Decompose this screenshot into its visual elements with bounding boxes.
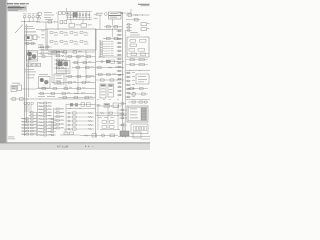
ladder marks right-top [126,24,132,26]
center row 4 [72,67,96,69]
relays inside K5 [130,40,136,43]
ladder stub above ECU [119,103,126,105]
center row 7 [36,88,96,90]
relay box K5 outline [127,37,149,57]
ladder stub below ECU [119,124,127,126]
vertical bus B [26,24,28,122]
fuse column group F1-F8 [67,12,69,20]
diode pair D3 D4 [60,21,63,24]
top right note text [138,4,150,5]
K5 lower contacts [126,59,148,61]
battery row comps [24,43,36,45]
ladder L2 [38,102,53,104]
fuse rail top wire [66,11,92,13]
gauge G1 [104,13,107,16]
bottom tick marks [85,146,86,147]
module box M1 [136,74,149,84]
label text rows [44,11,52,14]
lamp E3 [36,13,40,16]
bottom margin strip [0,143,150,150]
label rows [96,12,103,15]
relay K2 cluster [57,61,71,74]
lead x112 lower [112,28,114,37]
battery B1 [25,35,32,40]
connector strip pins [134,127,136,131]
ECU top comps row [128,101,148,103]
center row 5 [66,76,96,78]
note rows above K5 [130,31,138,34]
relay K3 with coils [39,77,51,89]
ladder right-mid-2 [117,74,123,76]
connector CN2 round cluster [27,51,38,62]
relay RT4 [141,28,147,31]
upper comp rows [38,46,52,48]
right bottom wire [126,99,150,101]
diode pair D1 D2 [59,12,62,15]
center row 1 wire [50,51,96,53]
starter wire stub [37,36,40,38]
CN1 bottom rail [98,56,122,58]
right rows [128,88,148,90]
resistor module RM1 [100,84,106,98]
row y99 comps [12,98,16,100]
relay RT3 [141,23,147,26]
bottom cluster A [64,132,68,135]
ladder L3 [54,108,65,110]
note text block [8,136,14,139]
center row 6 [52,82,96,84]
center row 9 wire [58,97,96,99]
fuse rail feed stub [66,8,68,12]
center row 3 [72,62,96,64]
bottom right wire [118,136,150,138]
row R30 [96,74,124,76]
component U2 [81,24,87,28]
wire right second [126,19,140,21]
contact block cluster [54,74,64,84]
ladder L1 [29,112,37,114]
fuse F0 on wire [36,21,58,23]
revision table [7,6,27,12]
unit box UB [109,16,122,19]
starter label rows [24,25,33,28]
fuse holder cluster left [11,86,17,92]
lead x112 [112,19,114,26]
vertical trunk x122 [122,12,124,137]
ladder L4 [66,112,94,114]
wire right exit [126,70,150,72]
center row 1 comps [53,51,57,53]
horn H1 [32,13,35,16]
wire harness diagonal [15,25,23,34]
ladder of connectors right-mid [117,30,123,32]
connector CN1 pin column [99,40,101,57]
ECU box outline [127,106,148,122]
marks right of fuse row [94,14,98,15]
page bottom edge shadow line [0,142,150,143]
K5 internal wire [127,53,149,55]
fuse rail bottom wire [66,19,92,21]
left margin strip [0,0,6,144]
cluster boxes [97,104,101,105]
drop lines [24,105,26,113]
center vertical links [51,50,53,83]
top-left wire bus [21,21,40,23]
verticals lower right [97,104,99,130]
connector strip box [131,124,148,134]
lamp E2 [28,13,31,16]
resistor module RM2 [108,84,114,97]
row across y104 [66,104,96,106]
center row 9 text [38,95,45,98]
text under fuse box [48,51,57,54]
vertical bus C [28,50,30,97]
lead x100 [99,15,101,30]
row with resistor R21 [96,67,124,69]
horizontal ground run y99 [10,98,94,100]
row with resistor R20 [96,61,124,63]
vertical link x58 [57,14,59,30]
switch boxes row [27,63,31,67]
vertical link x46 [45,22,47,30]
relay block K1 [73,12,78,17]
ECU lead wires [119,109,127,111]
wires from connector [38,53,52,55]
row across y108 [66,108,96,110]
FB1 left stub marks [41,30,45,33]
vertical bus A [24,22,26,137]
title text ELECTRICAL CIRCUIT DIAGRAM [7,3,13,4]
pin label rows [25,68,34,71]
bottom wire row [80,135,118,137]
vertical trunk x95 [95,29,97,137]
junction dots top-left [23,20,26,23]
resistor RT2 [134,14,138,15]
vertical trunk x125 [124,30,126,138]
dots row [97,98,100,101]
wire right top [126,14,150,16]
ECU hatched column [141,108,146,120]
junction marks [24,103,26,105]
wire fusebox to trunk [96,29,122,31]
lamp E1 [23,13,27,16]
wire row y38.5 [104,38,123,40]
wire row y26.8 [104,26,122,28]
comp box RT1 [128,13,131,16]
ladder far right [125,72,131,74]
svg-text:4-7 1 L04: 4-7 1 L04 [57,145,69,149]
row y113 [96,112,124,114]
feed wire top right [118,12,131,14]
component U1 [69,24,75,28]
wire into fuse box [36,29,46,31]
cluster grid [102,121,107,124]
wire from cluster [22,88,37,90]
page background [0,0,150,150]
unit box UA [109,12,122,15]
ladder left-of-center [54,51,64,53]
bus y115 [96,115,126,117]
row R31 [96,79,124,81]
fuse box FB1 outline [46,29,96,50]
bottom cluster B [120,131,129,136]
center row 8 [38,93,96,95]
switch S1 [38,13,41,16]
center row 2 [66,56,96,58]
starter M1 box [33,35,37,39]
fuses inside FB1 [50,32,53,34]
ECU pin rows [130,108,137,111]
